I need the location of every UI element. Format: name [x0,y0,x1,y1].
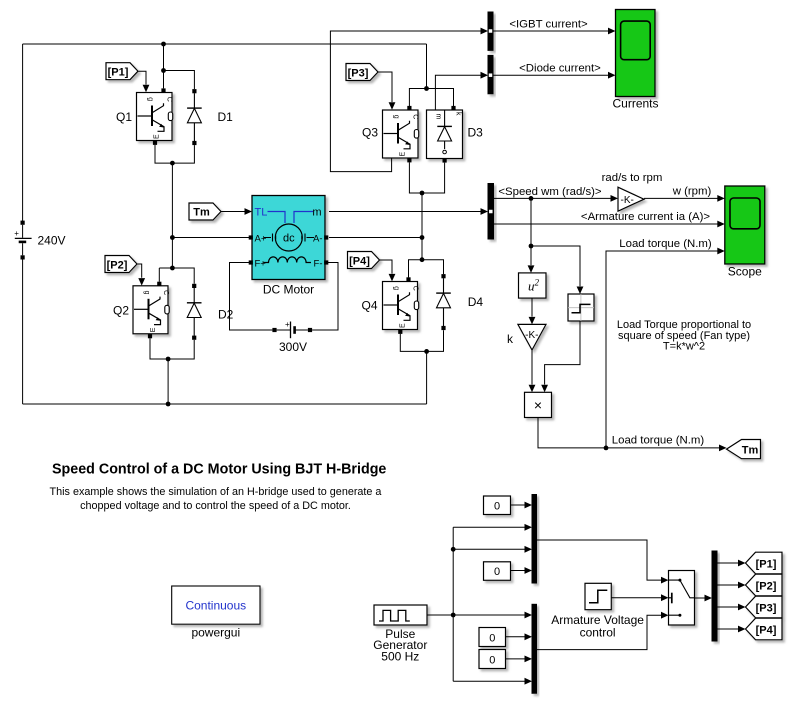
math function u^2 [519,273,547,298]
svg-text:300V: 300V [279,340,307,354]
wire: A- line to right leg rail [329,237,422,239]
svg-text:500 Hz: 500 Hz [381,649,419,663]
wire: load torque up to Scope input 3 [606,251,718,448]
svg-text:m: m [435,114,442,120]
svg-text:D3: D3 [468,126,484,140]
Goto tag [P2] [746,574,783,596]
wire: branch to D2 top [172,268,194,284]
wire: demux to [P1] [717,562,738,564]
svg-text:0: 0 [494,566,500,578]
From tag [P3] [346,64,378,81]
wire: pulse generator to mux 2 [427,614,525,616]
node: Q4 leg junction [424,349,429,354]
wire: switch output to demux [695,597,705,599]
node: Q1 leg junction [170,161,175,166]
svg-text:Scope: Scope [728,265,762,279]
wire: Q4 leg down to bottom rail [426,351,428,404]
Goto tag [P3] [746,596,783,618]
svg-text:Q1: Q1 [116,110,132,124]
wire: speed tap down [530,198,532,246]
svg-text:D1: D1 [218,110,234,124]
constant 0 block 3 [479,628,506,647]
wire: gain to Scope input 1 [644,197,718,199]
step block Armature Voltage control [585,583,611,609]
svg-text:chopped voltage and to control: chopped voltage and to control the speed… [80,500,351,512]
From tag [P1] [106,63,138,80]
diode D1 [187,89,202,145]
wire: constant 1 to mux1 [511,504,525,506]
wire: D3 m measurement to Diode current selector [435,75,480,110]
wire: branch to Q3 collector [409,89,426,107]
transistor Q4 [383,282,418,330]
svg-text:Load torque (N.m): Load torque (N.m) [619,238,712,250]
battery 300V [272,320,312,338]
powergui block [172,586,260,624]
svg-text:Q2: Q2 [113,304,129,318]
svg-text:powergui: powergui [191,625,240,639]
selector bar (IGBT current) [488,12,493,50]
diode D4 [436,274,451,330]
constant 0 block 2 [484,562,511,581]
bus selector (motor measurements) [488,184,494,240]
wire: F- loop to 300V battery [312,263,338,331]
svg-text:[P4]: [P4] [756,624,777,636]
node: A- tap [420,235,425,240]
transistor Q1 [137,93,173,141]
node: load torque tap [604,446,609,451]
wire: selector to Currents scope input 1 [494,30,609,32]
wire: Q3 emitter / D3 anode junction [409,162,444,193]
svg-text:0: 0 [494,500,500,512]
transistor Q3 [383,110,419,158]
DC Motor block [252,196,325,280]
wire: [P4] to Q4 gate [380,260,393,274]
node: Q3/D3 collector split [424,86,429,91]
svg-text:<Diode current>: <Diode current> [519,62,601,74]
node: speed tap for load model [529,196,534,201]
wire: motor m output to bus selector [329,211,481,213]
wire: step to switch control input [611,597,661,599]
wire: constant 3 to mux2 [506,636,525,638]
wire: F+ loop to 300V battery [230,263,273,331]
mux bar 2 [532,604,537,693]
wire: product to load torque line [538,418,719,448]
node: top rail to Q1 junction [161,42,166,47]
svg-text:0: 0 [489,632,495,644]
wire: left DC rail from 240V battery up to top rail [22,44,24,221]
svg-text:-K-: -K- [621,195,634,206]
wire: constant 2 to mux1 [511,570,525,572]
svg-text:×: × [534,397,542,413]
Goto tag [P4] [746,618,783,640]
scope Currents [616,10,656,97]
wire: pulse to mux1 input 3 [453,548,525,550]
wire: mux2 output to switch input 3 [537,615,662,649]
wire: Q2 emitter / D2 anode junction [150,338,194,359]
Pulse Generator block [374,605,427,625]
wire: demux to [P2] [717,584,738,586]
wire: branch to Q2 collector [159,268,172,282]
wire: speed wm output to gain [494,197,611,199]
wire: left rail battery minus down to bottom rail [22,260,24,405]
svg-text:[P3]: [P3] [348,67,369,79]
wire: [P2] to Q2 gate [138,264,142,278]
diode D2 [187,284,202,340]
sign block [568,294,594,321]
svg-text:k: k [507,332,514,346]
wire: into u2 [530,246,532,265]
svg-text:Continuous: Continuous [185,598,246,612]
wire: armature current to Scope input 2 [494,223,718,225]
svg-text:<Armature current ia (A)>: <Armature current ia (A)> [581,211,710,223]
From tag [P2] [105,256,137,273]
wire: constant 4 to mux2 [506,658,525,660]
svg-text:240V: 240V [38,233,66,247]
svg-text:0: 0 [489,654,495,666]
node: A+ tap [170,235,175,240]
svg-text:+: + [14,229,19,238]
wire: pulse to mux1 input 2 [453,526,525,528]
wire: Q4 emitter / D4 anode junction [400,330,443,351]
wire: branch to D3 cathode [427,89,454,107]
svg-text:[P1]: [P1] [108,67,129,79]
wire: Q2 leg down to bottom rail [167,359,169,404]
wire: Q3 m measurement loop to IGBT current selector [330,31,480,172]
wire: right leg rail down [421,193,423,260]
wire: pulse distribution rail [452,527,454,681]
svg-text:Load torque (N.m): Load torque (N.m) [612,435,705,447]
node: pulse tap 2 [451,547,456,552]
wire: to motor A+ [172,237,249,239]
svg-text:control: control [580,626,616,640]
svg-text:F+: F+ [255,258,267,269]
wire: [P1] to Q1 gate [139,71,147,84]
svg-text:dc: dc [283,233,295,245]
product block [525,392,552,417]
wire: top rail drop to Q3 leg [426,44,428,89]
svg-text:m: m [312,207,321,219]
node: Q3 leg junction [420,191,425,196]
From tag [P4] [348,252,380,269]
svg-text:[P1]: [P1] [756,558,777,570]
svg-text:[P2]: [P2] [756,580,777,592]
wire: branch to Q4 collector [409,260,423,278]
Goto tag [P1] [746,552,783,574]
wire: left mid rail down to Q2 branch [171,163,173,268]
svg-text:[P2]: [P2] [107,259,128,271]
switch block [669,571,695,626]
scope Scope [725,186,765,264]
node: split to u2 and sign [529,244,534,249]
node: Q1/D1 collector split [161,68,166,73]
wire: demux to [P3] [717,606,738,608]
mux bar 1 [532,495,537,584]
gain k [518,324,546,350]
wire: [P3] to Q3 gate [378,72,392,102]
node: Q2 leg junction [166,357,171,362]
svg-text:[P3]: [P3] [756,602,777,614]
wire: sign to product [545,321,580,385]
wire: selector to Currents scope input 2 [494,74,609,76]
svg-text:Tm: Tm [742,444,759,456]
svg-text:-K-: -K- [525,330,538,341]
selector bar (Diode current) [488,55,493,93]
svg-text:k: k [455,112,462,116]
svg-text:rad/s to rpm: rad/s to rpm [602,172,663,184]
svg-text:Q3: Q3 [362,126,378,140]
node: bottom rail junction [166,402,171,407]
demux bar [712,551,717,641]
svg-text:Speed Control of a DC Motor Us: Speed Control of a DC Motor Using BJT H-… [52,462,386,478]
wire: drop from top rail to Q1 collector [163,44,165,88]
svg-text:Tm: Tm [193,207,210,219]
wire: pulse to mux2 input 4 [453,680,525,682]
transistor Q2 [133,286,168,334]
svg-text:TL: TL [255,207,268,219]
battery 240V [14,221,31,260]
constant 0 block 4 [479,650,506,669]
node: Q4/D4 collector split [420,257,425,262]
svg-text:F-: F- [314,258,323,269]
svg-text:[P4]: [P4] [349,255,370,267]
diode D3 block [427,110,463,159]
node: Q2/D2 collector split [170,266,175,271]
svg-text:Currents: Currents [612,97,658,111]
svg-text:D2: D2 [218,308,234,322]
svg-text:A+: A+ [255,233,267,244]
From tag Tm [189,203,221,220]
node: pulse tap [451,613,456,618]
svg-text:Q4: Q4 [361,299,377,313]
wire: mux1 output to switch input 1 [537,540,662,580]
Goto tag Tm [727,440,761,459]
wire: gain k to product [531,350,533,385]
wire: bottom rail [23,403,427,405]
svg-text:<IGBT current>: <IGBT current> [509,18,588,30]
wire: Tm tag to DC motor TL [221,211,245,213]
wire: branch to D1 top [164,71,195,90]
svg-text:This example shows the simulat: This example shows the simulation of an … [50,486,382,498]
wire: Q1 emitter / D1 anode to mid rail [155,145,194,163]
svg-text:D4: D4 [468,295,484,309]
wire: branch to D4 top [422,260,444,274]
wire: demux to [P4] [717,628,738,630]
wire: across to sign block [531,246,580,286]
svg-text:T=k*w^2: T=k*w^2 [663,340,705,352]
wire: u2 to gain k [531,298,533,317]
svg-text:DC Motor: DC Motor [263,283,314,297]
svg-text:+: + [285,320,290,329]
svg-text:w (rpm): w (rpm) [672,185,712,197]
constant 0 block 1 [484,496,511,515]
wire: top rail [23,43,427,45]
svg-text:A-: A- [313,233,323,244]
svg-text:<Speed wm (rad/s)>: <Speed wm (rad/s)> [498,186,602,198]
